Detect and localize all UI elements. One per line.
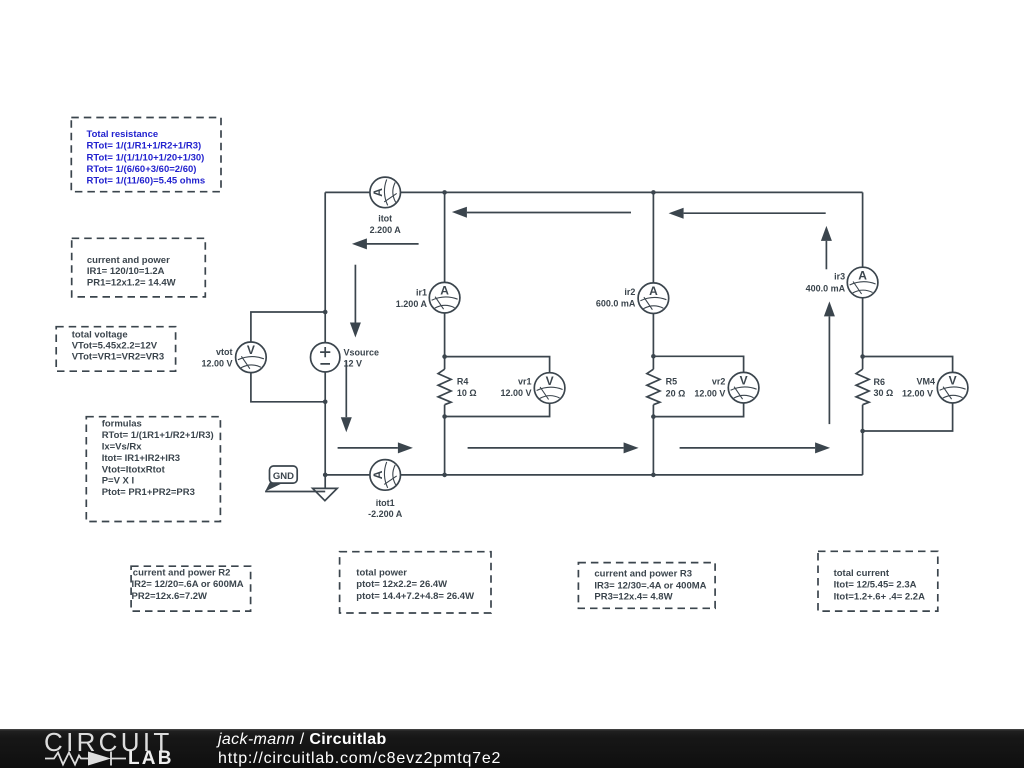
svg-text:ir1: ir1 bbox=[416, 288, 427, 298]
svg-text:Itot=1.2+.6+ .4= 2.2A: Itot=1.2+.6+ .4= 2.2A bbox=[834, 592, 925, 603]
svg-text:current and power: current and power bbox=[87, 255, 170, 266]
svg-text:A: A bbox=[440, 284, 449, 298]
wire R4 branch lower bbox=[444, 405, 446, 475]
resistor R6 bbox=[856, 369, 893, 405]
svg-text:GND: GND bbox=[273, 471, 294, 482]
junction node R5 bottom bbox=[651, 414, 656, 419]
svg-text:VM4: VM4 bbox=[916, 377, 935, 387]
note box total voltage bbox=[56, 327, 175, 372]
junction node R4 bottom bbox=[442, 414, 447, 419]
svg-text:R5: R5 bbox=[666, 377, 678, 387]
footer bar bbox=[0, 729, 1024, 768]
ammeter ir3 bbox=[847, 267, 878, 298]
junction node vtot lower tap bbox=[323, 400, 328, 405]
svg-text:IR1= 120/10=1.2A: IR1= 120/10=1.2A bbox=[87, 266, 165, 277]
svg-text:Itot= 12/5.45= 2.3A: Itot= 12/5.45= 2.3A bbox=[834, 580, 917, 591]
svg-text:vtot: vtot bbox=[216, 347, 233, 357]
svg-text:12.00 V: 12.00 V bbox=[902, 389, 933, 399]
svg-text:vr2: vr2 bbox=[712, 377, 726, 387]
wire R5 branch lower bbox=[652, 405, 654, 475]
svg-text:12.00 V: 12.00 V bbox=[500, 388, 531, 398]
note box current and power bbox=[72, 238, 206, 297]
footer url text bbox=[218, 750, 501, 768]
ammeter itot (rotated) bbox=[370, 177, 401, 208]
wire vr1 loop bbox=[445, 357, 550, 417]
note box total current bbox=[818, 551, 938, 611]
svg-text:20 Ω: 20 Ω bbox=[666, 389, 686, 399]
svg-text:IR3= 12/30=.4A or 400MA: IR3= 12/30=.4A or 400MA bbox=[594, 580, 706, 591]
svg-text:A: A bbox=[371, 188, 385, 197]
svg-text:ir2: ir2 bbox=[624, 287, 635, 297]
svg-text:vr1: vr1 bbox=[518, 377, 532, 387]
wire R4 branch upper bbox=[444, 192, 446, 369]
arrow bottom right 2 bbox=[468, 442, 639, 453]
note box current and power R2 bbox=[131, 566, 251, 611]
svg-text:1.200 A: 1.200 A bbox=[396, 299, 428, 309]
arrow bottom right 3 bbox=[680, 442, 831, 453]
resistor R5 bbox=[647, 369, 685, 405]
svg-text:Ptot= PR1+PR2=PR3: Ptot= PR1+PR2=PR3 bbox=[102, 487, 195, 498]
wire top rail bbox=[325, 191, 862, 193]
svg-text:VTot=VR1=VR2=VR3: VTot=VR1=VR2=VR3 bbox=[72, 352, 165, 363]
junction node top R4 bbox=[442, 190, 447, 195]
wire vr2 loop bbox=[653, 356, 743, 416]
voltage source Vsource bbox=[311, 343, 380, 372]
note box current and power R3 bbox=[578, 563, 715, 609]
ammeter itot1 (rotated) bbox=[370, 460, 401, 491]
junction node ground bbox=[323, 473, 328, 478]
svg-text:ptot= 12x2.2= 26.4W: ptot= 12x2.2= 26.4W bbox=[356, 579, 447, 590]
footer author text bbox=[218, 731, 387, 749]
GND flag bbox=[265, 466, 325, 492]
svg-text:V: V bbox=[247, 343, 255, 357]
junction node bottom R5 bbox=[651, 473, 656, 478]
svg-text:2.200 A: 2.200 A bbox=[370, 225, 402, 235]
svg-text:current and power R3: current and power R3 bbox=[594, 569, 692, 580]
wire vtot loop bbox=[251, 312, 325, 402]
ground bbox=[313, 488, 338, 500]
ammeter ir1 bbox=[429, 282, 460, 313]
svg-text:Itot= IR1+IR2+IR3: Itot= IR1+IR2+IR3 bbox=[102, 453, 180, 464]
wire R6 branch upper bbox=[862, 192, 864, 369]
svg-text:V: V bbox=[740, 374, 748, 388]
svg-text:30 Ω: 30 Ω bbox=[874, 388, 894, 398]
svg-text:RTot= 1/(1R1+1/R2+1/R3): RTot= 1/(1R1+1/R2+1/R3) bbox=[102, 430, 214, 441]
svg-text:600.0 mA: 600.0 mA bbox=[596, 299, 636, 309]
svg-text:A: A bbox=[649, 284, 658, 298]
junction node R6 top bbox=[860, 354, 865, 359]
voltmeter VM4 bbox=[937, 372, 968, 403]
wire bottom rail bbox=[325, 474, 862, 476]
arrow top long left 1 bbox=[452, 207, 631, 218]
junction node bottom R4 bbox=[442, 473, 447, 478]
svg-text:A: A bbox=[371, 470, 385, 479]
svg-text:P=V X I: P=V X I bbox=[102, 475, 134, 486]
arrow up above ir3 bbox=[821, 226, 832, 269]
svg-text:ptot= 14.4+7.2+4.8= 26.4W: ptot= 14.4+7.2+4.8= 26.4W bbox=[356, 591, 474, 602]
svg-text:V: V bbox=[949, 374, 957, 388]
junction node vtot upper tap bbox=[323, 310, 328, 315]
voltmeter vr2 bbox=[728, 372, 759, 403]
junction node R4 top bbox=[442, 354, 447, 359]
junction node R5 top bbox=[651, 354, 656, 359]
CircuitLab logo wordmark bbox=[44, 730, 173, 755]
arrow down lower bbox=[341, 361, 352, 433]
voltmeter vr1 bbox=[534, 373, 565, 404]
svg-text:RTot= 1/(1/R1+1/R2+1/R3): RTot= 1/(1/R1+1/R2+1/R3) bbox=[87, 141, 202, 152]
wire R6 branch lower bbox=[862, 405, 864, 475]
svg-text:current and power R2: current and power R2 bbox=[133, 567, 231, 578]
ammeter ir2 bbox=[638, 283, 669, 314]
svg-text:RTot= 1/(6/60+3/60=2/60): RTot= 1/(6/60+3/60=2/60) bbox=[87, 164, 197, 175]
svg-text:itot1: itot1 bbox=[376, 498, 395, 508]
arrow down upper bbox=[350, 265, 361, 338]
svg-text:Total resistance: Total resistance bbox=[87, 129, 159, 140]
junction node R6 bottom bbox=[860, 429, 865, 434]
svg-text:itot: itot bbox=[378, 214, 392, 224]
svg-text:-2.200 A: -2.200 A bbox=[368, 509, 403, 519]
arrow bottom right 1 bbox=[338, 442, 413, 453]
note box total power bbox=[340, 552, 491, 613]
wire ground stub bbox=[324, 475, 326, 492]
svg-text:VTot=5.45x2.2=12V: VTot=5.45x2.2=12V bbox=[72, 340, 158, 351]
svg-text:R6: R6 bbox=[874, 377, 886, 387]
svg-text:ir3: ir3 bbox=[834, 272, 845, 282]
arrow up below ir3 bbox=[824, 301, 835, 424]
wire R5 branch upper bbox=[652, 192, 654, 369]
svg-text:12.00 V: 12.00 V bbox=[694, 389, 725, 399]
arrow itot left bbox=[352, 238, 419, 249]
svg-text:10 Ω: 10 Ω bbox=[457, 388, 477, 398]
note box Total resistance (blue) bbox=[71, 118, 221, 192]
svg-text:IR2= 12/20=.6A or 600MA: IR2= 12/20=.6A or 600MA bbox=[132, 579, 244, 590]
svg-text:total current: total current bbox=[834, 568, 890, 579]
svg-text:A: A bbox=[858, 268, 867, 282]
wire VM4 loop bbox=[863, 357, 953, 432]
arrow top long left 2 bbox=[669, 208, 826, 219]
junction node top R5 bbox=[651, 190, 656, 195]
svg-text:PR1=12x1.2= 14.4W: PR1=12x1.2= 14.4W bbox=[87, 277, 176, 288]
svg-text:400.0 mA: 400.0 mA bbox=[806, 283, 846, 293]
svg-text:RTot= 1/(11/60)=5.45 ohms: RTot= 1/(11/60)=5.45 ohms bbox=[87, 175, 206, 186]
svg-text:PR3=12x.4= 4.8W: PR3=12x.4= 4.8W bbox=[594, 591, 672, 602]
svg-text:formulas: formulas bbox=[102, 419, 142, 430]
svg-text:R4: R4 bbox=[457, 377, 469, 387]
svg-text:RTot= 1/(1/1/10+1/20+1/30): RTot= 1/(1/1/10+1/20+1/30) bbox=[87, 152, 205, 163]
wire left vertical (Vsource branch) bbox=[324, 192, 326, 475]
svg-text:Vtot=ItotxRtot: Vtot=ItotxRtot bbox=[102, 464, 166, 475]
svg-text:PR2=12x.6=7.2W: PR2=12x.6=7.2W bbox=[132, 591, 208, 602]
svg-text:total power: total power bbox=[356, 567, 407, 578]
logo resistor-diode glyph bbox=[42, 749, 132, 769]
voltmeter vtot bbox=[236, 342, 267, 373]
svg-text:V: V bbox=[546, 374, 554, 388]
note box formulas bbox=[86, 417, 220, 522]
svg-text:total voltage: total voltage bbox=[72, 330, 128, 341]
svg-text:Ix=Vs/Rx: Ix=Vs/Rx bbox=[102, 442, 143, 453]
resistor R4 bbox=[438, 369, 477, 405]
svg-text:Vsource: Vsource bbox=[344, 347, 380, 357]
svg-text:12.00 V: 12.00 V bbox=[201, 358, 232, 368]
